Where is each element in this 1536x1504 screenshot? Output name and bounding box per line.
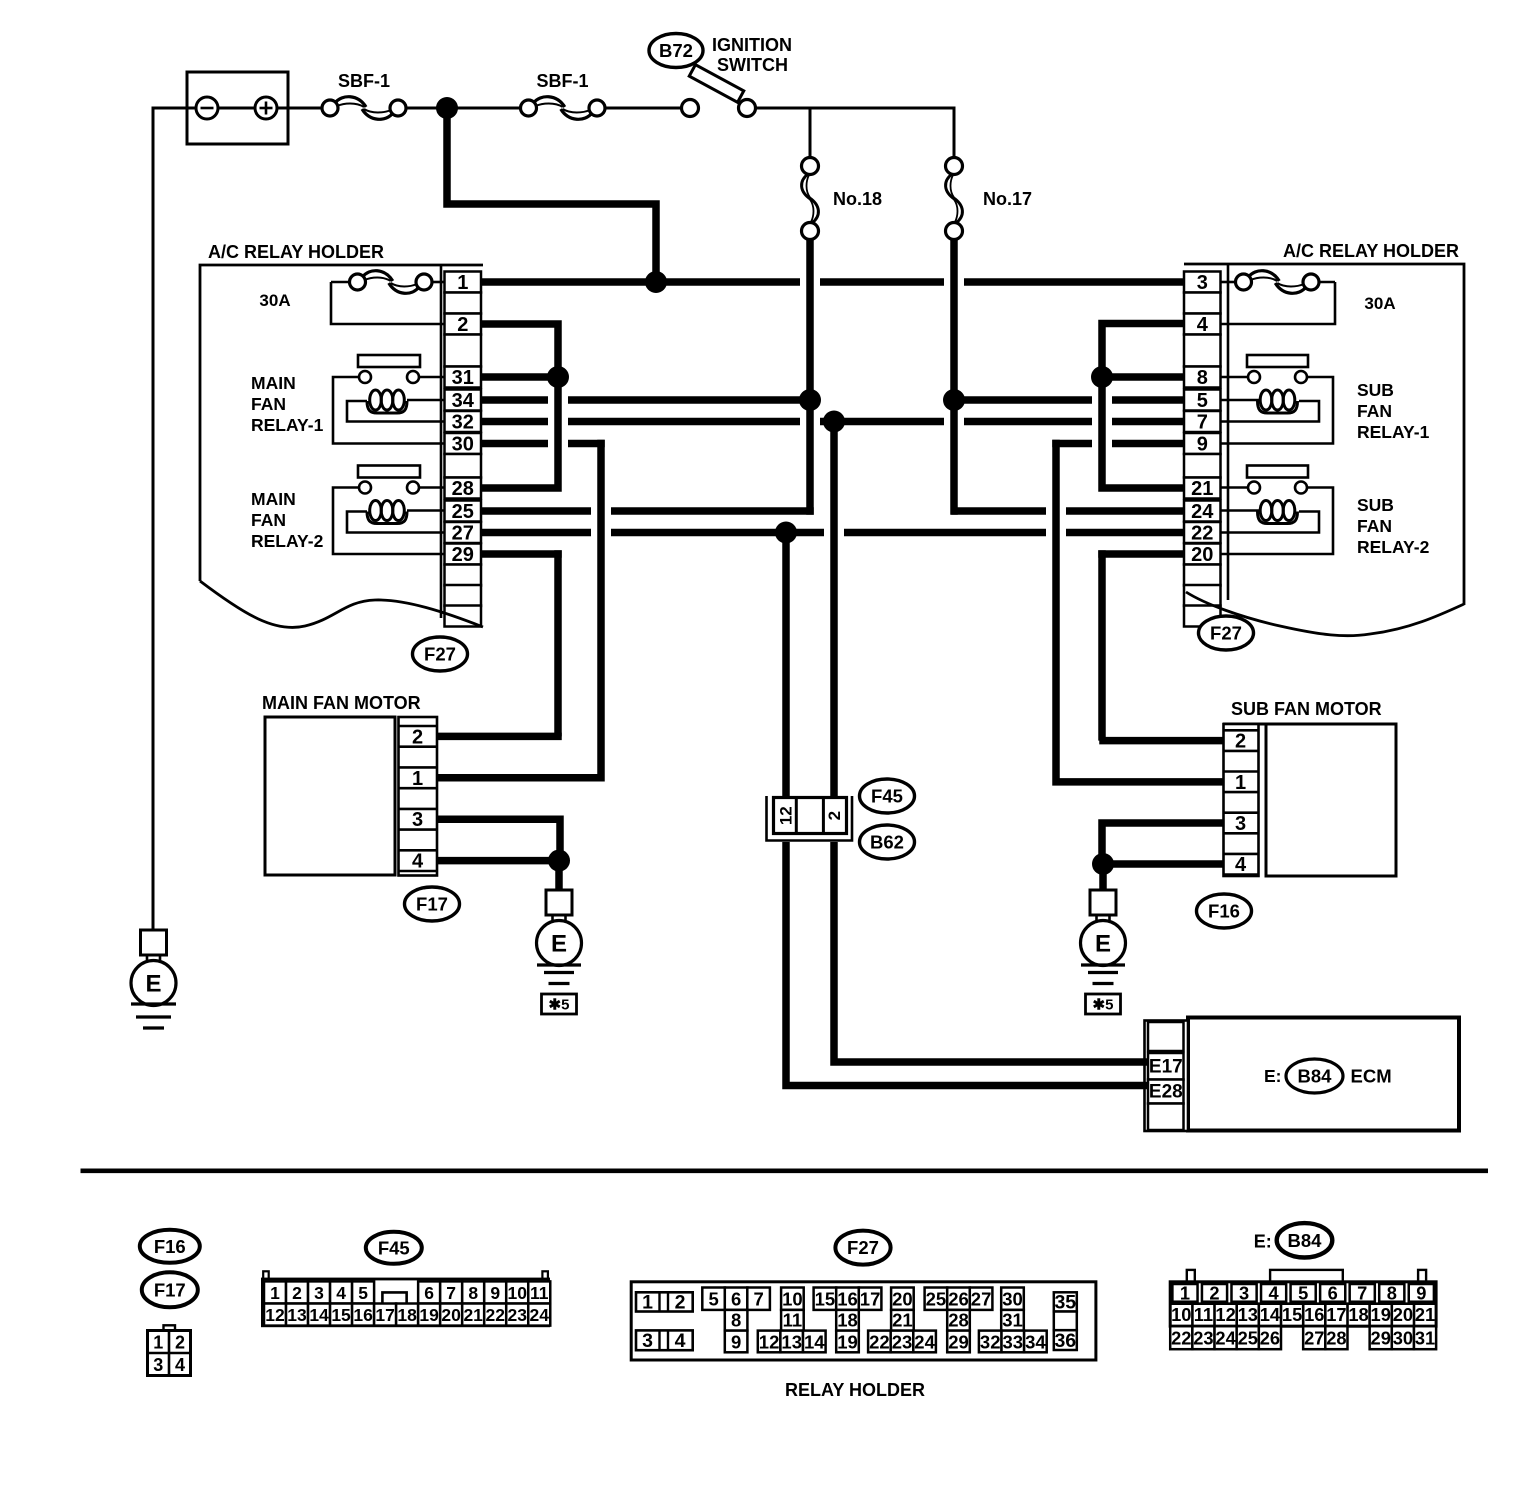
svg-text:IGNITION: IGNITION (712, 35, 792, 55)
svg-text:3: 3 (153, 1355, 163, 1375)
wire: pin 29 stub (481, 550, 562, 558)
svg-text:F16: F16 (1208, 901, 1240, 922)
junction main motor 3/4 ground (548, 850, 570, 872)
svg-text:6: 6 (424, 1283, 434, 1303)
svg-text:15: 15 (1282, 1304, 1302, 1325)
svg-text:8: 8 (1387, 1282, 1397, 1303)
30A fuse (left holder) (432, 281, 445, 284)
svg-text:16: 16 (1304, 1304, 1324, 1325)
svg-text:3: 3 (314, 1283, 324, 1303)
connector label F17 (405, 887, 460, 921)
svg-text:2: 2 (412, 726, 423, 748)
connector label B62 (860, 825, 915, 859)
ECM box (1188, 1018, 1459, 1131)
svg-text:11: 11 (783, 1310, 803, 1331)
svg-text:19: 19 (837, 1331, 858, 1352)
svg-text:4: 4 (1269, 1282, 1280, 1303)
relay coil (1221, 399, 1260, 402)
svg-text:28: 28 (452, 478, 474, 500)
svg-text:5: 5 (1298, 1282, 1308, 1303)
svg-text:B84: B84 (1298, 1066, 1333, 1087)
svg-text:1: 1 (457, 272, 468, 294)
svg-text:27: 27 (452, 523, 474, 545)
svg-text:13: 13 (287, 1305, 307, 1325)
svg-text:15: 15 (331, 1305, 351, 1325)
sub fan motor connector F16 column (1224, 724, 1259, 876)
svg-text:7: 7 (446, 1283, 456, 1303)
svg-text:No.17: No.17 (983, 189, 1032, 209)
svg-text:20: 20 (1191, 544, 1213, 566)
svg-text:11: 11 (530, 1283, 549, 1303)
connector view label F16 (140, 1230, 200, 1263)
svg-text:RELAY HOLDER: RELAY HOLDER (785, 1380, 925, 1400)
svg-text:FAN: FAN (1357, 516, 1392, 536)
svg-text:RELAY-1: RELAY-1 (1357, 422, 1430, 442)
svg-text:12: 12 (777, 806, 796, 825)
svg-text:RELAY-1: RELAY-1 (251, 415, 324, 435)
svg-text:22: 22 (485, 1305, 505, 1325)
svg-text:✱5: ✱5 (1093, 997, 1114, 1014)
svg-text:2: 2 (1209, 1282, 1219, 1303)
svg-text:F45: F45 (378, 1237, 410, 1258)
svg-text:9: 9 (731, 1331, 741, 1352)
svg-text:24: 24 (914, 1331, 935, 1352)
svg-text:5: 5 (1197, 390, 1208, 412)
svg-text:2: 2 (457, 314, 468, 336)
svg-text:8: 8 (1197, 367, 1208, 389)
wire: pin 20 to sub motor pin 2 (1098, 550, 1106, 740)
30A fuse (right holder) (1221, 281, 1237, 284)
svg-text:MAIN: MAIN (251, 489, 296, 509)
svg-text:2: 2 (675, 1292, 686, 1314)
connector view label F45 (366, 1232, 422, 1264)
svg-text:E28: E28 (1149, 1082, 1183, 1103)
A/C relay holder (right) outline (1184, 264, 1464, 605)
svg-text:MAIN FAN MOTOR: MAIN FAN MOTOR (262, 693, 421, 713)
junction pin 27-22 / B62-12 (775, 522, 797, 544)
connector label F27 (right) (1199, 616, 1254, 650)
wire switch to fuse branches (756, 108, 955, 158)
svg-text:SWITCH: SWITCH (717, 55, 788, 75)
wire: main B+ bus pin1 to pin3 (481, 278, 1184, 286)
svg-text:14: 14 (1260, 1304, 1281, 1325)
svg-text:E: E (145, 971, 161, 998)
svg-text:24: 24 (1215, 1328, 1236, 1349)
svg-text:24: 24 (1191, 501, 1214, 523)
connector label F16 (1197, 894, 1252, 928)
right holder pin column F27 (1184, 272, 1221, 293)
svg-text:24: 24 (530, 1305, 550, 1325)
svg-text:18: 18 (397, 1305, 417, 1325)
svg-text:29: 29 (1371, 1328, 1391, 1349)
svg-text:27: 27 (1304, 1328, 1324, 1349)
svg-text:14: 14 (804, 1331, 825, 1352)
SUB FAN MOTOR box (1266, 724, 1396, 876)
svg-text:33: 33 (1003, 1331, 1024, 1352)
svg-text:B72: B72 (659, 40, 693, 61)
svg-text:5: 5 (708, 1289, 718, 1310)
junction fuse No.18 / pin 34 (799, 389, 821, 411)
svg-text:4: 4 (336, 1283, 346, 1303)
svg-text:25: 25 (1238, 1328, 1258, 1349)
svg-text:18: 18 (837, 1310, 858, 1331)
svg-text:11: 11 (1194, 1304, 1213, 1325)
ignition switch B72 (682, 100, 699, 117)
branch wire to fuse No.18 (809, 108, 812, 158)
fuse No.17 (946, 158, 963, 175)
svg-text:1: 1 (412, 768, 423, 790)
svg-text:10: 10 (782, 1289, 803, 1310)
junction B+ bus to pin 1/3 (645, 271, 667, 293)
svg-text:3: 3 (1235, 813, 1246, 835)
wire: battery junction feed down to bus (447, 108, 656, 282)
svg-text:15: 15 (815, 1289, 836, 1310)
svg-text:F27: F27 (424, 644, 456, 665)
svg-text:FAN: FAN (1357, 401, 1392, 421)
svg-text:F17: F17 (416, 894, 448, 915)
svg-text:2: 2 (1235, 731, 1246, 753)
svg-text:SBF-1: SBF-1 (338, 71, 390, 91)
svg-text:1: 1 (642, 1292, 653, 1314)
svg-text:23: 23 (1193, 1328, 1213, 1349)
svg-text:10: 10 (507, 1283, 527, 1303)
wire (406, 107, 521, 110)
svg-text:SUB FAN MOTOR: SUB FAN MOTOR (1231, 699, 1382, 719)
junction pin 32-7 / B62-2 (823, 411, 845, 433)
svg-text:36: 36 (1054, 1330, 1076, 1352)
relay contact (1247, 466, 1308, 478)
relay coil (407, 509, 445, 512)
svg-text:ECM: ECM (1351, 1066, 1392, 1087)
svg-text:RELAY-2: RELAY-2 (251, 531, 324, 551)
svg-text:6: 6 (1328, 1282, 1338, 1303)
svg-text:27: 27 (971, 1289, 992, 1310)
wire: pin 31 stub (481, 373, 562, 381)
svg-text:✱5: ✱5 (549, 997, 570, 1014)
connector label F45 (860, 779, 915, 813)
wire: pin 30 stub (481, 440, 605, 448)
wire: fuse No.18 output down to pin 25 line (806, 239, 814, 515)
MAIN FAN MOTOR box (265, 717, 395, 875)
svg-text:6: 6 (731, 1289, 741, 1310)
svg-text:23: 23 (507, 1305, 527, 1325)
svg-text:32: 32 (452, 412, 474, 434)
junction pin 8 net (1091, 366, 1113, 388)
svg-text:12: 12 (265, 1305, 285, 1325)
relay contact (358, 466, 420, 478)
svg-text:F45: F45 (871, 786, 903, 807)
svg-text:3: 3 (1239, 1282, 1249, 1303)
svg-text:RELAY-2: RELAY-2 (1357, 537, 1430, 557)
svg-text:16: 16 (353, 1305, 373, 1325)
svg-text:7: 7 (753, 1289, 763, 1310)
wire: sub motor pin 2 stub (1099, 737, 1223, 745)
wire: pin 30 to main motor pin 1 (437, 440, 601, 778)
relay coil (1221, 509, 1260, 512)
svg-text:10: 10 (1171, 1304, 1191, 1325)
svg-text:26: 26 (948, 1289, 969, 1310)
svg-text:MAIN: MAIN (251, 373, 296, 393)
svg-text:12: 12 (759, 1331, 780, 1352)
wire: main motor pin 2 stub (437, 733, 562, 741)
svg-text:26: 26 (1260, 1328, 1280, 1349)
crossing halos (800, 277, 820, 288)
wire: B62 pin 12 down to ECM E28 (782, 533, 790, 799)
svg-text:E17: E17 (1149, 1057, 1183, 1078)
svg-text:FAN: FAN (251, 510, 286, 530)
svg-text:20: 20 (1393, 1304, 1413, 1325)
svg-text:28: 28 (1326, 1328, 1346, 1349)
connector view F27 relay holder (631, 1282, 1096, 1360)
ground (sub fan motor) with *5 (1090, 890, 1116, 915)
ECM connector column (1145, 1021, 1189, 1132)
main fan motor connector F17 column (399, 717, 438, 876)
svg-text:31: 31 (1415, 1328, 1435, 1349)
wire: No.17 junction to pin 5 (951, 396, 1184, 404)
wire: fuse No.17 output down to pin 24 line (950, 239, 958, 515)
svg-text:19: 19 (419, 1305, 439, 1325)
svg-text:SUB: SUB (1357, 495, 1394, 515)
fusible link SBF-1 (first) (322, 100, 338, 116)
battery minus wire down to ground (152, 107, 155, 931)
wavy bottom edge of right holder (1186, 592, 1464, 636)
wire: pin 24 line (951, 507, 1184, 515)
wire battery to SBF-1 (277, 107, 322, 110)
svg-text:30A: 30A (1364, 294, 1395, 313)
svg-text:No.18: No.18 (833, 189, 882, 209)
junction pin 31 net (547, 366, 569, 388)
svg-text:F16: F16 (154, 1236, 186, 1257)
svg-text:4: 4 (412, 851, 424, 873)
svg-text:F27: F27 (847, 1237, 879, 1258)
svg-text:12: 12 (1215, 1304, 1235, 1325)
svg-text:F27: F27 (1210, 623, 1242, 644)
svg-text:13: 13 (1238, 1304, 1258, 1325)
fuse No.18 (802, 158, 819, 175)
ground (battery minus) (141, 930, 167, 955)
A/C relay holder (left) outline (200, 265, 483, 581)
svg-text:23: 23 (892, 1331, 913, 1352)
wire: pin 27 to pin 22 (481, 529, 1184, 537)
wire (605, 107, 682, 110)
svg-text:20: 20 (441, 1305, 461, 1325)
wire: pin 9 to sub motor pin 1 (1056, 440, 1224, 782)
wire: pin 29 to main motor pin 2 (554, 550, 562, 736)
svg-text:2: 2 (175, 1333, 185, 1353)
connector label F27 (left) (413, 637, 468, 671)
svg-text:E:: E: (1254, 1231, 1272, 1251)
wire: main motor pin 3 corner (437, 819, 560, 857)
svg-text:25: 25 (452, 501, 474, 523)
svg-text:9: 9 (1197, 434, 1208, 456)
svg-text:30: 30 (452, 434, 474, 456)
fusible link SBF-1 (second) (521, 100, 537, 116)
svg-text:31: 31 (452, 367, 474, 389)
svg-text:F17: F17 (154, 1279, 186, 1300)
connector F45/B62 (12 / 2) (767, 796, 853, 841)
separator line (81, 1169, 1489, 1174)
svg-text:21: 21 (892, 1310, 913, 1331)
connector view label F17 (142, 1272, 198, 1307)
svg-text:A/C RELAY HOLDER: A/C RELAY HOLDER (1283, 241, 1459, 261)
svg-text:A/C RELAY HOLDER: A/C RELAY HOLDER (208, 242, 384, 262)
svg-text:3: 3 (642, 1330, 653, 1352)
svg-text:E: E (1095, 931, 1111, 958)
wire: pin 25 line (481, 507, 814, 515)
svg-text:22: 22 (1191, 523, 1213, 545)
svg-text:30: 30 (1393, 1328, 1413, 1349)
svg-text:E: E (551, 931, 567, 958)
svg-text:4: 4 (1235, 854, 1247, 876)
svg-text:9: 9 (490, 1283, 500, 1303)
wire: B62 pin 2 down to ECM E17 (830, 422, 838, 799)
wire: pin 32 to pin 7 (481, 418, 1184, 426)
svg-text:2: 2 (292, 1283, 302, 1303)
svg-text:1: 1 (153, 1333, 163, 1353)
connector view F16/F17 4-pin (164, 1325, 176, 1331)
wavy bottom edge of left holder (200, 581, 483, 627)
svg-text:B62: B62 (870, 832, 904, 853)
svg-text:13: 13 (781, 1331, 802, 1352)
svg-text:34: 34 (1025, 1331, 1046, 1352)
relay contact (1247, 355, 1308, 367)
wire: pin 34 to No.18 junction (481, 396, 814, 404)
junction sub motor 3/4 ground (1092, 853, 1114, 875)
relay coil (407, 399, 445, 402)
svg-text:4: 4 (175, 1355, 185, 1375)
svg-text:17: 17 (375, 1305, 394, 1325)
svg-text:29: 29 (452, 544, 474, 566)
wire: main motor pin 4 and ground drop (437, 861, 559, 890)
svg-text:21: 21 (1415, 1304, 1435, 1325)
svg-text:1: 1 (1180, 1282, 1190, 1303)
svg-text:21: 21 (463, 1305, 483, 1325)
svg-text:17: 17 (1326, 1304, 1346, 1325)
connector view F45 24-pin (263, 1271, 269, 1279)
svg-text:25: 25 (926, 1289, 947, 1310)
svg-text:22: 22 (1171, 1328, 1191, 1349)
svg-text:29: 29 (948, 1331, 969, 1352)
connector view label F27 (835, 1231, 890, 1265)
junction battery feed / SBF-1 (436, 97, 458, 119)
wire: pin 4 / pin 8 / pin 21 vertical (1102, 324, 1184, 489)
svg-text:30: 30 (1002, 1289, 1023, 1310)
ground (main fan motor) with *5 (546, 890, 572, 915)
svg-text:8: 8 (468, 1283, 478, 1303)
svg-text:4: 4 (675, 1330, 686, 1352)
svg-text:1: 1 (270, 1283, 280, 1303)
svg-text:22: 22 (869, 1331, 890, 1352)
svg-text:SUB: SUB (1357, 380, 1394, 400)
svg-text:16: 16 (837, 1289, 858, 1310)
svg-text:19: 19 (1371, 1304, 1391, 1325)
relay contact (358, 355, 420, 367)
svg-text:20: 20 (892, 1289, 913, 1310)
left holder pin column F27 (445, 272, 482, 293)
svg-text:32: 32 (980, 1331, 1001, 1352)
svg-text:34: 34 (452, 390, 475, 412)
svg-text:5: 5 (358, 1283, 368, 1303)
svg-text:3: 3 (1197, 272, 1208, 294)
wire: pin 2 / pin 31 / pin 28 vertical (481, 324, 558, 488)
svg-text:21: 21 (1191, 478, 1213, 500)
svg-text:14: 14 (309, 1305, 329, 1325)
svg-text:8: 8 (731, 1310, 741, 1331)
svg-text:30A: 30A (259, 291, 290, 310)
svg-text:7: 7 (1197, 412, 1208, 434)
svg-text:FAN: FAN (251, 394, 286, 414)
svg-text:4: 4 (1197, 314, 1209, 336)
svg-text:SBF-1: SBF-1 (536, 71, 588, 91)
wire: pin 8 stub (1102, 373, 1184, 381)
svg-text:3: 3 (412, 809, 423, 831)
wire: pin 20 stub (1098, 550, 1184, 558)
svg-text:1: 1 (1235, 772, 1246, 794)
svg-text:E:: E: (1264, 1066, 1282, 1086)
wire: pin 9 stub (1052, 440, 1184, 448)
svg-text:9: 9 (1416, 1282, 1426, 1303)
svg-text:28: 28 (948, 1310, 969, 1331)
svg-text:7: 7 (1357, 1282, 1367, 1303)
battery (187, 72, 288, 144)
svg-text:2: 2 (825, 811, 844, 820)
wire: sub motor pin 3 corner (1102, 823, 1224, 860)
svg-text:18: 18 (1348, 1304, 1368, 1325)
wire: sub motor pin 4 and ground drop (1103, 864, 1224, 890)
junction fuse No.17 / pin 5 (943, 389, 965, 411)
svg-text:31: 31 (1002, 1310, 1023, 1331)
svg-text:B84: B84 (1288, 1230, 1323, 1251)
svg-text:17: 17 (860, 1289, 881, 1310)
connector view B84 31-pin (1187, 1270, 1195, 1282)
